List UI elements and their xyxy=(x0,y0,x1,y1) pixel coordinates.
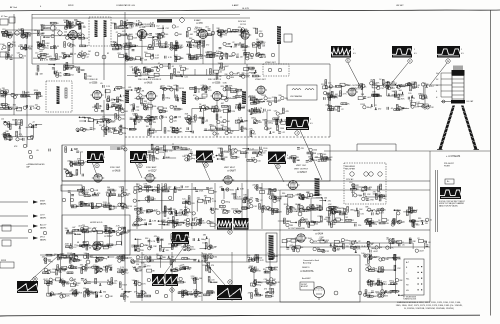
svg-text:100: 100 xyxy=(324,198,327,200)
svg-text:1500: 1500 xyxy=(112,245,116,247)
svg-text:100: 100 xyxy=(397,257,400,259)
svg-text:1Meg: 1Meg xyxy=(11,109,16,111)
svg-text:.0047: .0047 xyxy=(373,251,378,253)
svg-text:120: 120 xyxy=(156,41,159,43)
svg-text:270K: 270K xyxy=(165,47,170,49)
svg-text:2: 2 xyxy=(310,119,311,121)
svg-text:.047: .047 xyxy=(227,44,231,46)
svg-text:L12: L12 xyxy=(212,293,215,295)
svg-text:120: 120 xyxy=(64,31,67,33)
svg-text:100: 100 xyxy=(424,97,427,99)
svg-text:470: 470 xyxy=(86,130,89,132)
svg-text:120: 120 xyxy=(269,293,272,295)
svg-text:C92: C92 xyxy=(117,53,120,55)
svg-text:VIDEO DET: VIDEO DET xyxy=(265,62,277,64)
svg-text:C41: C41 xyxy=(120,28,123,30)
svg-text:.22: .22 xyxy=(162,37,165,39)
svg-text:82: 82 xyxy=(107,53,109,55)
svg-text:270K: 270K xyxy=(199,190,204,192)
svg-text:560: 560 xyxy=(336,249,339,251)
svg-text:C92: C92 xyxy=(141,213,144,215)
svg-text:1: 1 xyxy=(353,49,354,51)
svg-text:470: 470 xyxy=(301,148,304,150)
svg-text:560: 560 xyxy=(221,125,224,127)
svg-text:270K: 270K xyxy=(373,257,378,259)
svg-text:.22: .22 xyxy=(143,38,146,40)
svg-text:1Meg: 1Meg xyxy=(102,258,107,260)
svg-text:4 AMP: 4 AMP xyxy=(232,4,239,7)
svg-text:470: 470 xyxy=(305,219,308,221)
svg-text:.047: .047 xyxy=(263,151,267,153)
svg-text:⊙ 6CB6: ⊙ 6CB6 xyxy=(89,82,98,85)
svg-text:G2: G2 xyxy=(436,79,438,81)
svg-text:C92: C92 xyxy=(88,228,91,230)
svg-text:⊙ 6AXXOTA: ⊙ 6AXXOTA xyxy=(300,270,314,273)
svg-text:270K: 270K xyxy=(87,76,92,78)
svg-text:L12: L12 xyxy=(41,58,44,60)
svg-text:GL 47B: GL 47B xyxy=(242,8,249,10)
svg-text:L12: L12 xyxy=(295,195,298,197)
svg-text:.001: .001 xyxy=(317,249,321,251)
svg-text:.01: .01 xyxy=(102,232,105,234)
svg-text:C41: C41 xyxy=(420,93,423,95)
svg-text:120: 120 xyxy=(179,66,182,68)
svg-text:68: 68 xyxy=(219,76,221,78)
svg-text:68: 68 xyxy=(110,232,112,234)
svg-text:1500: 1500 xyxy=(129,34,133,36)
svg-text:C92: C92 xyxy=(142,267,145,269)
svg-text:C92: C92 xyxy=(380,88,383,90)
svg-text:.22: .22 xyxy=(395,284,398,286)
svg-text:Assembly: Assembly xyxy=(303,261,311,264)
svg-text:68: 68 xyxy=(194,32,196,34)
svg-text:.01: .01 xyxy=(205,121,208,123)
svg-text:330: 330 xyxy=(423,241,426,243)
svg-text:⊙ 6CB6: ⊙ 6CB6 xyxy=(212,82,221,85)
svg-text:.047: .047 xyxy=(214,192,218,194)
svg-text:R214: R214 xyxy=(388,291,393,293)
svg-text:C92: C92 xyxy=(397,268,400,270)
svg-text:.01: .01 xyxy=(197,91,200,93)
svg-text:470: 470 xyxy=(378,108,381,110)
svg-text:1Meg: 1Meg xyxy=(256,285,261,287)
svg-text:.047: .047 xyxy=(93,228,97,230)
svg-text:.01: .01 xyxy=(99,125,102,127)
svg-text:0.5: 0.5 xyxy=(310,123,313,125)
svg-text:.05: .05 xyxy=(256,39,259,41)
svg-text:C92: C92 xyxy=(121,87,124,89)
svg-text:R118: R118 xyxy=(132,37,136,39)
svg-text:.047: .047 xyxy=(221,103,225,105)
svg-text:ALLOY: ALLOY xyxy=(40,224,47,227)
svg-text:.22: .22 xyxy=(63,35,66,37)
svg-text:.001: .001 xyxy=(41,256,45,258)
svg-text:120: 120 xyxy=(215,225,218,227)
svg-text:470: 470 xyxy=(317,154,320,156)
svg-text:.001: .001 xyxy=(0,93,1,95)
svg-text:C92: C92 xyxy=(372,267,375,269)
svg-text:6AMP2: 6AMP2 xyxy=(40,226,46,229)
svg-text:120: 120 xyxy=(247,255,250,257)
svg-text:L12: L12 xyxy=(202,200,205,202)
svg-text:560: 560 xyxy=(100,122,103,124)
svg-text:.0047: .0047 xyxy=(419,251,424,253)
svg-text:.0047: .0047 xyxy=(185,187,190,189)
svg-text:1Meg: 1Meg xyxy=(44,48,49,50)
svg-text:⊙ 6V6GT: ⊙ 6V6GT xyxy=(297,171,307,174)
svg-text:.05: .05 xyxy=(142,254,145,256)
svg-text:DK CAP: DK CAP xyxy=(467,100,474,103)
svg-text:560: 560 xyxy=(198,296,201,298)
svg-text:1500: 1500 xyxy=(44,28,48,30)
svg-text:SPKR: SPKR xyxy=(1,260,7,262)
svg-text:470: 470 xyxy=(368,293,371,295)
svg-text:VERT OUTPUT: VERT OUTPUT xyxy=(294,169,309,171)
svg-text:D: D xyxy=(277,165,279,169)
svg-text:470: 470 xyxy=(19,134,22,136)
svg-text:C92: C92 xyxy=(247,200,250,202)
svg-text:SYNC AMP: SYNC AMP xyxy=(146,166,157,169)
svg-text:L12: L12 xyxy=(140,257,143,259)
svg-text:1500: 1500 xyxy=(134,90,138,92)
svg-text:330: 330 xyxy=(418,218,421,220)
svg-text:68: 68 xyxy=(198,90,200,92)
svg-text:.22: .22 xyxy=(4,52,7,54)
svg-text:.05: .05 xyxy=(36,150,39,152)
svg-text:.047: .047 xyxy=(122,257,126,259)
svg-text:220: 220 xyxy=(358,225,361,227)
svg-text:1500: 1500 xyxy=(308,238,312,240)
svg-text:270K: 270K xyxy=(118,49,123,51)
svg-text:117V: 117V xyxy=(40,215,45,217)
svg-text:1Meg: 1Meg xyxy=(389,281,394,283)
svg-text:C92: C92 xyxy=(180,98,183,100)
svg-text:⊙ 6AU6: ⊙ 6AU6 xyxy=(144,82,153,85)
svg-text:R214: R214 xyxy=(365,264,370,266)
svg-text:HI-1: HI-1 xyxy=(406,279,409,281)
svg-text:100: 100 xyxy=(202,223,205,225)
svg-text:330: 330 xyxy=(186,212,189,214)
svg-text:1Meg: 1Meg xyxy=(197,28,202,30)
svg-text:C41: C41 xyxy=(382,210,385,212)
svg-text:.047: .047 xyxy=(173,85,177,87)
svg-text:68: 68 xyxy=(273,132,275,134)
svg-text:470: 470 xyxy=(206,44,209,46)
svg-text:R214: R214 xyxy=(69,75,74,77)
svg-text:L12: L12 xyxy=(86,57,89,59)
svg-text:1500: 1500 xyxy=(232,148,236,150)
svg-text:C41: C41 xyxy=(301,207,304,209)
svg-text:C41: C41 xyxy=(219,71,222,73)
svg-text:68: 68 xyxy=(89,247,91,249)
svg-text:120: 120 xyxy=(321,84,324,86)
svg-text:1500: 1500 xyxy=(51,272,55,274)
svg-text:R118: R118 xyxy=(110,194,114,196)
svg-text:220: 220 xyxy=(122,118,125,120)
svg-text:.05: .05 xyxy=(100,83,103,85)
svg-text:30: 30 xyxy=(213,157,215,159)
svg-text:.001: .001 xyxy=(34,105,38,107)
svg-text:.001: .001 xyxy=(220,95,224,97)
svg-text:.22: .22 xyxy=(277,190,280,192)
svg-text:220: 220 xyxy=(262,153,265,155)
svg-text:.05: .05 xyxy=(133,115,136,117)
svg-text:120: 120 xyxy=(136,107,139,109)
svg-text:HORIZ FREQ: HORIZ FREQ xyxy=(176,215,189,217)
svg-text:470: 470 xyxy=(193,95,196,97)
svg-text:.01: .01 xyxy=(167,218,170,220)
svg-text:R118: R118 xyxy=(188,291,192,293)
svg-text:C41: C41 xyxy=(254,206,257,208)
svg-text:117V AC: 117V AC xyxy=(346,178,354,181)
svg-text:270K: 270K xyxy=(108,132,113,134)
svg-text:C92: C92 xyxy=(391,88,394,90)
svg-text:68: 68 xyxy=(236,104,238,106)
svg-text:470: 470 xyxy=(179,234,182,236)
svg-text:1: 1 xyxy=(461,49,462,51)
svg-text:220: 220 xyxy=(87,121,90,123)
svg-text:1ST VIDEO IF: 1ST VIDEO IF xyxy=(85,79,99,81)
svg-text:⊙ 6CQ7: ⊙ 6CQ7 xyxy=(148,170,157,173)
svg-text:120: 120 xyxy=(129,28,132,30)
svg-text:1345, 1346, 1347, 1373, 1373,: 1345, 1346, 1347, 1373, 1373, 1374, 1373… xyxy=(396,305,463,307)
svg-text:100: 100 xyxy=(257,161,260,163)
svg-text:560: 560 xyxy=(361,191,364,193)
svg-text:.22: .22 xyxy=(358,241,361,243)
svg-text:1Meg: 1Meg xyxy=(225,202,230,204)
svg-text:270K: 270K xyxy=(90,294,95,296)
svg-text:B, 120250, 120251B, 120252M, 1: B, 120250, 120251B, 120252M, 120254B, 12… xyxy=(404,308,454,310)
svg-text:470: 470 xyxy=(147,265,150,267)
svg-text:L12: L12 xyxy=(351,220,354,222)
svg-text:68: 68 xyxy=(273,279,275,281)
svg-text:270K: 270K xyxy=(33,108,38,110)
svg-text:.05: .05 xyxy=(402,222,405,224)
svg-text:.22: .22 xyxy=(138,250,141,252)
svg-text:100: 100 xyxy=(341,86,344,88)
svg-text:.0047: .0047 xyxy=(177,190,182,192)
svg-text:560: 560 xyxy=(316,205,319,207)
svg-text:270K: 270K xyxy=(249,266,254,268)
svg-text:C92: C92 xyxy=(259,31,262,33)
svg-text:.047: .047 xyxy=(160,148,164,150)
svg-text:C92: C92 xyxy=(367,194,370,196)
svg-text:C41: C41 xyxy=(274,110,277,112)
svg-text:68: 68 xyxy=(280,113,282,115)
svg-text:C41: C41 xyxy=(84,291,87,293)
svg-text:L12: L12 xyxy=(208,248,211,250)
svg-text:470: 470 xyxy=(248,293,251,295)
svg-text:C41: C41 xyxy=(199,98,202,100)
svg-text:C41: C41 xyxy=(17,53,20,55)
svg-text:AT 2nd: AT 2nd xyxy=(10,6,18,9)
svg-text:220: 220 xyxy=(156,158,159,160)
svg-text:6AMP2: 6AMP2 xyxy=(40,202,46,205)
svg-text:0.5: 0.5 xyxy=(353,53,356,55)
svg-text:330: 330 xyxy=(282,193,285,195)
svg-text:G: G xyxy=(447,59,449,63)
svg-text:1500: 1500 xyxy=(313,150,317,152)
svg-text:L12: L12 xyxy=(338,211,341,213)
svg-text:L12: L12 xyxy=(1,119,4,121)
svg-text:.01: .01 xyxy=(253,134,256,136)
svg-text:.22: .22 xyxy=(100,296,103,298)
svg-text:C92: C92 xyxy=(165,28,168,30)
svg-text:1ST IF: 1ST IF xyxy=(240,24,247,26)
svg-text:C92: C92 xyxy=(266,101,269,103)
svg-text:.047: .047 xyxy=(128,258,132,260)
svg-text:SYNC SEP: SYNC SEP xyxy=(110,167,121,169)
svg-text:68: 68 xyxy=(34,30,36,32)
svg-text:330: 330 xyxy=(179,34,182,36)
svg-text:.22: .22 xyxy=(137,192,140,194)
svg-text:.22: .22 xyxy=(11,55,14,57)
svg-text:100: 100 xyxy=(207,88,210,90)
svg-text:C92: C92 xyxy=(168,187,171,189)
svg-text:68: 68 xyxy=(77,242,79,244)
svg-text:C41: C41 xyxy=(184,76,187,78)
svg-text:R118: R118 xyxy=(384,223,388,225)
svg-text:330: 330 xyxy=(84,271,87,273)
svg-text:R118: R118 xyxy=(360,104,364,106)
svg-text:Beal 6687: Beal 6687 xyxy=(302,278,311,280)
svg-text:220: 220 xyxy=(20,136,23,138)
svg-text:M: M xyxy=(34,277,36,281)
svg-text:270K: 270K xyxy=(319,237,324,239)
svg-text:330: 330 xyxy=(75,67,78,69)
svg-text:560: 560 xyxy=(214,257,217,259)
svg-text:.05: .05 xyxy=(125,190,128,192)
svg-text:.22: .22 xyxy=(274,268,277,270)
svg-text:C41: C41 xyxy=(179,265,182,267)
svg-text:.01: .01 xyxy=(153,198,156,200)
svg-text:C92: C92 xyxy=(264,279,267,281)
svg-text:.047: .047 xyxy=(177,132,181,134)
svg-text:R214: R214 xyxy=(123,233,128,235)
svg-text:470: 470 xyxy=(58,293,61,295)
svg-text:1Meg: 1Meg xyxy=(40,25,45,27)
svg-text:560: 560 xyxy=(392,91,395,93)
svg-text:⊙ 6CG7: ⊙ 6CG7 xyxy=(104,235,113,238)
svg-text:L12: L12 xyxy=(73,247,76,249)
svg-text:R118: R118 xyxy=(201,55,205,57)
svg-text:1M: 1M xyxy=(88,51,91,53)
svg-text:1: 1 xyxy=(414,49,415,51)
svg-text:120: 120 xyxy=(178,117,181,119)
svg-text:4: 4 xyxy=(287,155,288,157)
svg-text:68: 68 xyxy=(429,242,431,244)
svg-text:1500: 1500 xyxy=(293,211,297,213)
svg-text:220: 220 xyxy=(147,195,150,197)
svg-text:330: 330 xyxy=(138,70,141,72)
svg-text:68: 68 xyxy=(418,85,420,87)
svg-text:VERT MULT: VERT MULT xyxy=(224,167,236,169)
svg-text:⊙ 6AX4: ⊙ 6AX4 xyxy=(315,233,324,236)
svg-text:1500: 1500 xyxy=(230,189,234,191)
svg-text:R214: R214 xyxy=(191,249,196,251)
svg-text:1Meg: 1Meg xyxy=(123,128,128,130)
svg-text:R118: R118 xyxy=(277,212,281,214)
svg-text:6SN7: 6SN7 xyxy=(40,201,46,203)
svg-text:2ND VIDEO IF SOUND IF: 2ND VIDEO IF SOUND IF xyxy=(138,79,162,81)
svg-text:.0047: .0047 xyxy=(154,57,159,59)
svg-text:.047: .047 xyxy=(314,157,318,159)
svg-text:1Meg: 1Meg xyxy=(165,97,170,99)
svg-text:330: 330 xyxy=(103,291,106,293)
svg-text:.22: .22 xyxy=(275,256,278,258)
svg-text:330: 330 xyxy=(171,257,174,259)
svg-text:.22: .22 xyxy=(32,122,35,124)
svg-text:R214: R214 xyxy=(159,152,164,154)
svg-text:68: 68 xyxy=(273,285,275,287)
svg-text:330: 330 xyxy=(227,89,230,91)
svg-text:L12: L12 xyxy=(378,193,381,195)
svg-text:330: 330 xyxy=(65,228,68,230)
svg-text:270K: 270K xyxy=(370,199,375,201)
svg-text:1500: 1500 xyxy=(152,106,156,108)
svg-text:1500: 1500 xyxy=(185,237,189,239)
svg-text:.01: .01 xyxy=(390,108,393,110)
svg-text:220: 220 xyxy=(252,184,255,186)
svg-text:100: 100 xyxy=(262,120,265,122)
svg-text:L12: L12 xyxy=(349,182,352,184)
svg-text:330: 330 xyxy=(132,23,135,25)
svg-text:120: 120 xyxy=(196,224,199,226)
svg-text:120: 120 xyxy=(174,121,177,123)
svg-text:.22: .22 xyxy=(0,105,1,107)
svg-text:C92: C92 xyxy=(360,214,363,216)
svg-text:.01: .01 xyxy=(429,220,432,222)
svg-text:.001: .001 xyxy=(134,67,138,69)
svg-text:1Meg: 1Meg xyxy=(191,158,196,160)
svg-text:330: 330 xyxy=(224,74,227,76)
svg-text:220: 220 xyxy=(177,72,180,74)
svg-text:L12: L12 xyxy=(156,26,159,28)
svg-text:.22: .22 xyxy=(232,42,235,44)
svg-text:R214: R214 xyxy=(34,90,39,92)
svg-text:R118: R118 xyxy=(168,45,172,47)
svg-text:220: 220 xyxy=(81,23,84,25)
svg-text:330: 330 xyxy=(185,69,188,71)
svg-text:.047: .047 xyxy=(203,110,207,112)
svg-text:.001: .001 xyxy=(205,26,209,28)
svg-text:1500: 1500 xyxy=(280,128,284,130)
svg-text:LIN SET: LIN SET xyxy=(396,5,404,7)
svg-text:.0047: .0047 xyxy=(415,221,420,223)
svg-text:68: 68 xyxy=(151,211,153,213)
svg-text:.05: .05 xyxy=(74,54,77,56)
svg-text:220: 220 xyxy=(234,47,237,49)
svg-text:.001: .001 xyxy=(63,169,67,171)
svg-text:330: 330 xyxy=(237,72,240,74)
svg-text:C92: C92 xyxy=(130,105,133,107)
svg-text:C92: C92 xyxy=(328,204,331,206)
svg-text:1Meg: 1Meg xyxy=(70,27,75,29)
svg-text:120: 120 xyxy=(136,264,139,266)
svg-text:.0047: .0047 xyxy=(224,66,229,68)
svg-text:.01: .01 xyxy=(157,108,160,110)
svg-text:DC RST MEASURE: DC RST MEASURE xyxy=(288,227,306,230)
svg-text:R214: R214 xyxy=(218,110,223,112)
svg-text:C92: C92 xyxy=(268,98,271,100)
svg-text:FUSE 1.6 A-CIRCT: FUSE 1.6 A-CIRCT xyxy=(355,245,372,248)
svg-text:120: 120 xyxy=(111,99,114,101)
svg-text:IF AMP: IF AMP xyxy=(194,19,201,22)
svg-text:330: 330 xyxy=(204,196,207,198)
svg-text:R214: R214 xyxy=(145,74,150,76)
svg-text:L12: L12 xyxy=(154,131,157,133)
svg-text:H-VOLT: H-VOLT xyxy=(313,230,321,232)
